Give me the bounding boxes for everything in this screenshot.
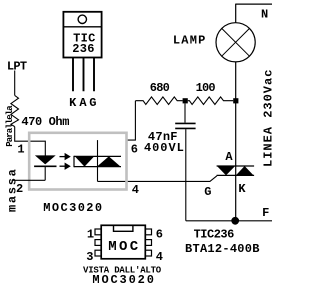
svg-text:1: 1 — [87, 227, 94, 241]
capacitor C1 47nF — [175, 103, 195, 220]
wire N top — [236, 4, 272, 23]
svg-text:1: 1 — [17, 143, 24, 157]
svg-text:4: 4 — [156, 250, 163, 264]
LED D1 — [34, 155, 56, 180]
svg-text:236: 236 — [72, 42, 95, 56]
svg-text:K: K — [238, 182, 246, 196]
wire LED cathode to massa — [12, 179, 46, 181]
wire LPT down — [14, 71, 16, 96]
svg-text:Parallela: Parallela — [5, 105, 15, 147]
wire resistor to LED anode — [15, 127, 46, 156]
junction dot K node — [231, 217, 239, 225]
wire 680 to MOC pin6 — [128, 101, 136, 140]
svg-text:6: 6 — [156, 227, 163, 241]
svg-text:MOC3020: MOC3020 — [43, 201, 103, 215]
svg-text:G: G — [89, 96, 96, 110]
svg-text:3: 3 — [86, 250, 93, 264]
svg-text:A: A — [225, 150, 233, 164]
svg-text:2: 2 — [16, 182, 23, 196]
junction mid (680/100/cap) — [183, 98, 188, 103]
svg-text:470 Ohm: 470 Ohm — [21, 115, 69, 129]
svg-text:N: N — [261, 7, 268, 21]
junction right (100 ohm to line) — [233, 98, 238, 103]
svg-text:680: 680 — [150, 81, 170, 95]
svg-text:4: 4 — [132, 183, 139, 197]
TO-220 package TIC236 — [63, 12, 101, 92]
svg-text:100: 100 — [196, 81, 216, 95]
wire F — [235, 220, 272, 222]
svg-text:TIC236: TIC236 — [194, 227, 235, 241]
optocoupler U1 gray box MOC3020 — [29, 133, 126, 190]
DIP-6 package MOC3020 top view — [95, 225, 152, 258]
wire lamp to triac A (main vertical) — [235, 62, 237, 217]
svg-text:LAMP: LAMP — [173, 34, 207, 48]
resistor 100 — [188, 97, 233, 105]
svg-text:LPT: LPT — [7, 60, 27, 74]
svg-text:LINEA 230Vac: LINEA 230Vac — [262, 69, 273, 167]
resistor 470 Ohm (vertical) — [11, 95, 19, 126]
svg-text:MOC3020: MOC3020 — [92, 273, 155, 287]
resistor 680 — [135, 97, 182, 105]
svg-text:BTA12-400B: BTA12-400B — [185, 242, 260, 256]
svg-text:K: K — [69, 96, 77, 110]
svg-text:F: F — [262, 206, 269, 220]
svg-text:6: 6 — [131, 143, 138, 157]
svg-text:G: G — [204, 185, 211, 199]
light arrows — [60, 153, 71, 170]
lamp LAMP symbol — [216, 23, 255, 62]
wire cap bottom to K node — [186, 220, 235, 222]
triac TR1 symbol — [217, 166, 255, 176]
triac gate wire — [98, 176, 217, 182]
opto-triac — [74, 140, 121, 181]
svg-text:400VL: 400VL — [144, 141, 185, 155]
svg-text:A: A — [79, 96, 87, 110]
svg-text:MOC: MOC — [108, 239, 140, 255]
